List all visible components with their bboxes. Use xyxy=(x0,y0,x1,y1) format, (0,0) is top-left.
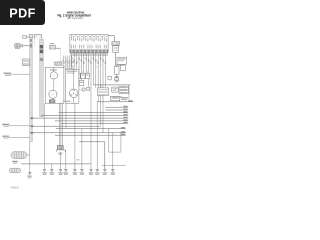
bus top note xyxy=(112,96,122,97)
wire bus A xyxy=(93,84,130,86)
ground G x51.8 xyxy=(50,169,53,171)
label left harness xyxy=(4,73,12,74)
ECU pins xyxy=(72,37,107,49)
distributor D1 xyxy=(69,89,78,98)
wire corner xyxy=(79,142,105,169)
label tick xyxy=(76,159,79,160)
wire bus lines xyxy=(31,102,134,135)
ECU pin strip xyxy=(70,50,108,53)
svg-text:PDF: PDF xyxy=(9,6,35,20)
ground G x112.8 xyxy=(111,169,114,171)
wire label row xyxy=(70,53,72,55)
ground G x104.8 xyxy=(103,169,106,171)
sensor name plate xyxy=(117,57,127,64)
loop wire xyxy=(109,129,121,153)
connector row C6 xyxy=(14,45,17,47)
connector ticks xyxy=(66,68,74,69)
wire xyxy=(55,47,60,49)
dashed wire xyxy=(59,48,61,62)
switch box SW1 xyxy=(114,66,119,74)
connector tick xyxy=(114,78,118,80)
wire loom L2 dark segment xyxy=(40,45,44,48)
wire xyxy=(128,85,130,102)
distributor box xyxy=(65,69,79,103)
ground G2 xyxy=(116,74,118,76)
wire bus bottom xyxy=(21,163,91,165)
wire xyxy=(9,137,30,139)
label xyxy=(50,69,57,70)
wire xyxy=(100,85,102,88)
switch box SW2 xyxy=(121,65,126,71)
ground G x91.0 xyxy=(89,169,92,171)
ground G x81.9 xyxy=(80,169,83,171)
box B3 xyxy=(111,96,120,100)
label under gauge box xyxy=(63,101,71,102)
relay row small xyxy=(76,73,80,78)
resistor pack xyxy=(49,100,55,103)
ground G x65.8 xyxy=(64,169,67,171)
relay pair xyxy=(73,80,79,85)
wire xyxy=(74,103,76,169)
labels inside xyxy=(67,71,78,72)
wire loom L1 cap xyxy=(29,34,33,37)
gauge box xyxy=(45,67,64,103)
ground G x44.5 xyxy=(43,169,46,171)
dashed wire xyxy=(34,39,36,46)
sensor S1 xyxy=(112,42,120,46)
wire color labels xyxy=(71,57,72,59)
wire xyxy=(45,102,98,169)
wire xyxy=(9,125,30,127)
relay R2 xyxy=(97,88,108,95)
label left 3 xyxy=(2,136,9,137)
wire xyxy=(102,133,126,169)
connector C2 label xyxy=(50,43,55,44)
pump P1 xyxy=(9,168,21,173)
wire xyxy=(11,73,30,75)
ECU connector box xyxy=(70,34,108,50)
connector row C6 label xyxy=(15,43,20,44)
bus labels xyxy=(128,100,132,101)
motor M1 xyxy=(50,72,57,79)
wire loom L1 xyxy=(30,38,33,142)
wire xyxy=(73,69,75,103)
harness cluster wires xyxy=(63,56,71,70)
wire T xyxy=(115,65,125,66)
ground G x74.9 xyxy=(73,169,76,171)
fusible link F1 xyxy=(22,59,29,66)
svg-text:G99132: G99132 xyxy=(11,187,20,190)
wire loom L2 xyxy=(40,39,44,117)
ignition coil xyxy=(57,145,63,149)
wire xyxy=(115,52,117,65)
wire xyxy=(52,67,55,99)
washer motor xyxy=(11,152,27,159)
ground GL xyxy=(28,173,31,175)
junction nubs loom A xyxy=(31,117,34,119)
accessory dashes xyxy=(82,88,85,91)
connector bracket C7 xyxy=(34,35,41,39)
ECU drop wires xyxy=(72,53,106,170)
junction block J1 xyxy=(112,87,118,92)
connector stub xyxy=(23,36,27,39)
svg-text:1992 Toyota Tercel: 1992 Toyota Tercel xyxy=(67,17,83,20)
harness drop wires xyxy=(59,103,66,145)
connector C2 xyxy=(49,45,55,49)
diode block xyxy=(108,76,111,80)
junction nub loom B xyxy=(40,114,43,116)
connector strip C3 xyxy=(55,62,62,65)
ground G x60.5 xyxy=(59,169,62,171)
ground G x97.2 xyxy=(96,169,99,171)
motor M2 xyxy=(49,90,57,98)
junction block J2 xyxy=(119,86,128,93)
wire xyxy=(26,36,29,38)
wire xyxy=(108,36,114,42)
PDF badge xyxy=(0,0,45,25)
wire xyxy=(27,142,30,173)
wire xyxy=(23,45,30,47)
label left 2 xyxy=(2,124,9,125)
